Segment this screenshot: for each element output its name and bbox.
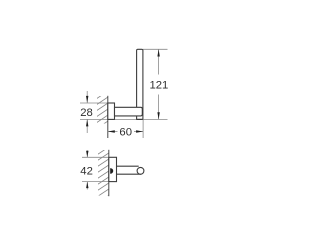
dimension 121: line — [158, 49, 160, 74]
mounting plate (lower) — [109, 157, 117, 181]
svg-text:42: 42 — [80, 166, 93, 178]
long bottom line y=119.4 (product underside + extension for 121/28 dims) — [80, 118, 168, 120]
arm from plate to post (rounded right end) — [115, 107, 143, 116]
dimension 60: left arrow — [108, 130, 115, 132]
dimension 121: top arrow — [157, 49, 159, 56]
extension line top of plate (28 dim) — [80, 102, 108, 104]
svg-text:121: 121 — [149, 80, 168, 92]
svg-text:28: 28 — [80, 107, 93, 119]
wall line (lower) — [108, 150, 110, 196]
dimension 121: bottom arrow — [157, 112, 159, 119]
vertical post (holder bar) — [137, 49, 143, 119]
dimension 60: right arrow — [136, 130, 143, 132]
svg-text:60: 60 — [119, 127, 132, 139]
extension lines 42 dim — [82, 156, 109, 158]
dimension 42: arrows — [86, 150, 88, 157]
dimension 60: extension under post right edge — [142, 119, 144, 138]
top extension line from post top to 121 dim — [143, 48, 168, 50]
dimension 28: arrows — [86, 91, 88, 103]
wall hatch (upper) — [96, 90, 110, 129]
post bottom segment re-stroke (object weight) — [137, 118, 143, 120]
round end of rod (post cross-section) — [137, 167, 144, 174]
rod (holder bar seen from above) — [117, 165, 139, 167]
dimension 60: line — [108, 131, 118, 133]
screw detail (half disc) — [110, 168, 113, 174]
wall line (upper), continues down as extension for 60 dim — [107, 96, 109, 138]
wall hatch (lower) — [96, 146, 111, 204]
mounting plate (upper) — [108, 103, 115, 119]
